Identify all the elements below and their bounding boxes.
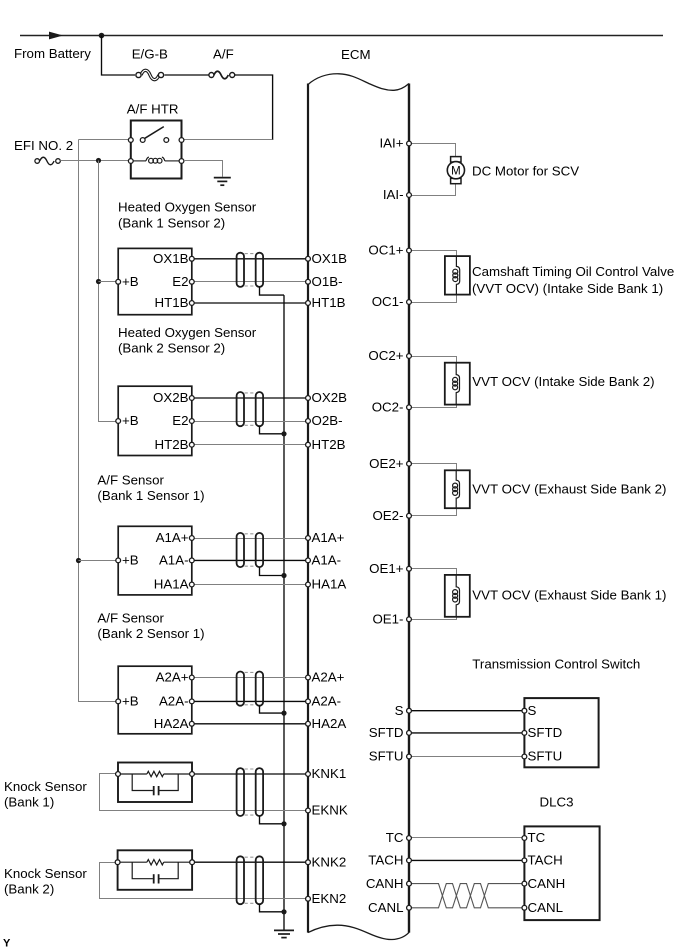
shield knock2 cable [237,856,264,904]
svg-text:A/F: A/F [213,47,234,62]
wire shield knock2 drain [260,904,285,912]
svg-text:OC2+: OC2+ [368,348,403,363]
svg-text:E2: E2 [172,413,188,428]
wire A2A- [192,700,308,702]
wire OC1+ to OCV1 [409,251,457,257]
ECM left pin HA1A [306,577,347,592]
knock2 pins [115,860,194,865]
wire KNK2 [192,861,308,863]
svg-text:(Bank 2): (Bank 2) [4,882,54,897]
wire HT1B [192,302,308,304]
sensor3 pins [116,536,194,587]
wire OC1- to OCV1 [409,295,457,303]
ECM left pin A2A- [306,694,341,709]
wire shield ground bus [283,295,285,930]
svg-text:TC: TC [528,830,546,845]
svg-text:A/F Sensor: A/F Sensor [97,473,164,488]
svg-text:OE1-: OE1- [372,612,403,627]
svg-text:OC1+: OC1+ [368,243,403,258]
node junction shield4 bus [281,711,286,716]
ECM left pin A2A+ [306,670,345,685]
wire relay coil to ground [184,161,223,177]
wire SFTU [409,756,524,758]
wire OE1+ to OCV4 [409,569,457,575]
wire A1A- [192,559,308,561]
wire CANH straight segments [409,884,437,908]
wire OC2+ to OCV2 [409,357,457,363]
ECM left pin KNK1 [306,766,347,781]
sensor2 pins [116,396,194,448]
svg-text:S: S [395,703,404,718]
svg-text:Y: Y [3,938,11,950]
ECM right pin S [395,703,412,718]
ECM right pin OC1+ [368,243,411,258]
svg-text:(VVT OCV) (Intake Side Bank 1): (VVT OCV) (Intake Side Bank 1) [472,281,663,296]
ECM right pin OC2+ [368,348,411,363]
fuse E/G-B fusible link [136,70,164,79]
wire relay switch output [182,139,273,141]
ECM right pin OC2- [372,400,412,415]
switch box transmission control switch [522,698,599,767]
wire EKN2 loop [100,863,309,899]
wire OE2- to OCV3 [409,508,457,515]
svg-text:CANL: CANL [528,900,563,915]
svg-text:HT1B: HT1B [312,295,346,310]
wire OX2B [192,397,308,399]
knock sensor 2 box [118,850,193,890]
svg-text:Transmission Control Switch: Transmission Control Switch [472,657,640,672]
svg-text:SFTD: SFTD [369,725,404,740]
wire OE2+ to OCV3 [409,464,457,471]
svg-text:A/F Sensor: A/F Sensor [97,610,164,625]
svg-text:(Bank 1 Sensor 1): (Bank 1 Sensor 1) [97,488,204,503]
svg-text:SFTU: SFTU [528,749,563,764]
svg-text:A2A-: A2A- [312,694,342,709]
svg-text:A1A+: A1A+ [312,530,345,545]
svg-text:EFI NO. 2: EFI NO. 2 [14,138,73,153]
motor M1 DC Motor for SCV [447,157,464,184]
sensor AF bank1 box [118,526,192,595]
ECM left pin A1A- [306,553,341,568]
shield sensor1 cable [237,253,264,287]
svg-text:A1A-: A1A- [159,553,189,568]
ground relay coil [214,178,231,186]
wire S [409,710,524,712]
node junction EFI wire rail B [96,158,101,163]
ECM left pin HT2B [306,437,346,452]
wire A/F fuse to relay switch [235,75,273,140]
svg-text:CANL: CANL [368,900,403,915]
svg-text:KNK1: KNK1 [312,766,347,781]
svg-text:OX1B: OX1B [312,251,348,266]
wire E/G-B to A/F fuse [164,74,209,76]
wire shield3 drain [260,567,285,575]
solenoid OCV3 VVT OCV exhaust bank 2 [445,470,470,508]
svg-text:TACH: TACH [528,853,563,868]
ECM right pin TACH [368,853,411,868]
svg-text:(Bank 2 Sensor 1): (Bank 2 Sensor 1) [97,626,204,641]
svg-text:SFTU: SFTU [369,749,404,764]
sensor AF bank2 box [118,666,192,734]
ECM right edge [408,84,410,933]
svg-text:A/F HTR: A/F HTR [127,102,179,117]
svg-text:TACH: TACH [368,853,403,868]
shield sensor3 cable [237,533,264,567]
svg-text:SFTD: SFTD [528,725,563,740]
ECM right pin OE1+ [369,561,411,576]
ECM right pin TC [386,830,412,845]
ECM top wavy edge [308,74,409,91]
svg-text:DLC3: DLC3 [540,795,574,810]
ECM left pin KNK2 [306,854,347,869]
svg-text:E2: E2 [172,274,188,289]
wire TACH [409,859,524,861]
svg-text:OE1+: OE1+ [369,561,404,576]
connector box DLC3 [522,826,600,920]
wire HT2B [192,444,308,446]
wire battery feed top line [20,35,663,37]
node junction shield2 bus [281,431,286,436]
svg-text:Heated Oxygen Sensor: Heated Oxygen Sensor [118,325,257,340]
svg-text:TC: TC [386,830,404,845]
svg-text:HT2B: HT2B [312,437,346,452]
wire CAN twisted pair [437,884,524,908]
wire EKNK loop [100,774,309,811]
svg-text:+B: +B [122,694,139,709]
wire HA2A [192,723,308,725]
svg-text:HT1B: HT1B [155,295,189,310]
svg-text:O1B-: O1B- [312,274,343,289]
wire rail A to sensor3 +B [79,560,119,562]
svg-text:CANH: CANH [366,876,404,891]
svg-text:Camshaft Timing Oil Control Va: Camshaft Timing Oil Control Valve [472,264,674,279]
svg-text:OC2-: OC2- [372,400,404,415]
wire IAI- to motor [409,184,456,196]
ECM left pin HT1B [306,295,346,310]
solenoid OCV1 camshaft timing oil control valve [445,256,470,295]
svg-text:(Bank 1): (Bank 1) [4,795,54,810]
sensor1 pins [116,256,194,305]
svg-text:HA2A: HA2A [312,716,347,731]
svg-text:IAI-: IAI- [383,187,404,202]
svg-text:HA1A: HA1A [312,577,347,592]
svg-text:A2A+: A2A+ [312,670,345,685]
ECM right pin OE1- [372,612,411,627]
svg-text:HA1A: HA1A [154,577,189,592]
ECM bottom wavy edge [308,925,409,939]
svg-text:OE2+: OE2+ [369,456,404,471]
svg-text:VVT OCV (Intake Side Bank 2): VVT OCV (Intake Side Bank 2) [472,374,654,389]
wire shield1 drain [260,287,285,295]
svg-text:A2A-: A2A- [159,694,189,709]
svg-text:VVT OCV (Exhaust Side Bank 1): VVT OCV (Exhaust Side Bank 1) [472,588,666,603]
ECM left edge [307,84,309,933]
svg-text:KNK2: KNK2 [312,854,347,869]
wire OC2- to OCV2 [409,405,457,408]
wire relay switch to rail A [79,139,131,141]
wire OX1B [192,258,308,260]
node junction rail A sensor3 +B [76,558,81,563]
fuse A/F [209,71,235,79]
ECM right pin OC1- [372,294,412,309]
wire A2A+ [192,677,308,679]
svg-text:+B: +B [122,553,139,568]
svg-text:IAI+: IAI+ [379,136,403,151]
wire shield4 drain [260,706,285,713]
wire rail B vertical [99,161,119,422]
sensor HOS bank2 box [118,386,192,455]
ECM left pin O2B- [306,413,343,428]
shield knock1 cable [237,768,264,816]
ECM right pin OE2+ [369,456,411,471]
wire IAI+ to motor [409,144,456,157]
svg-text:OE2-: OE2- [372,508,403,523]
svg-text:Knock Sensor: Knock Sensor [4,779,87,794]
arrow on battery line [49,32,63,40]
svg-text:O2B-: O2B- [312,413,343,428]
wire E2 sensor1 [192,281,308,283]
sensor HOS bank1 box [118,248,192,314]
ECM right pin IAI+ [379,136,411,151]
ECM left pin EKN2 [306,891,347,906]
ECM right pin SFTD [369,725,412,740]
ECM left pin HA2A [306,716,347,731]
node junction shield3 bus [281,573,286,578]
svg-text:From Battery: From Battery [14,46,91,61]
ECM right pin CANL [368,900,411,915]
wire shield2 drain [260,426,285,434]
ECM left pin OX2B [306,390,348,405]
wire TC [409,837,524,839]
ECM right pin CANH [366,876,412,891]
node junction rail B sensor1 +B [96,279,101,284]
svg-text:+B: +B [122,413,139,428]
svg-text:M: M [451,165,461,177]
svg-text:CANH: CANH [528,876,566,891]
svg-text:Knock Sensor: Knock Sensor [4,866,87,881]
svg-text:+B: +B [122,274,139,289]
svg-text:OX1B: OX1B [153,251,189,266]
svg-text:OX2B: OX2B [153,390,189,405]
svg-text:OC1-: OC1- [372,294,404,309]
fuse EFI NO. 2 [35,157,60,165]
wire OE1- to OCV4 [409,617,457,620]
node junction knock1 drain bus [281,821,286,826]
ECM right pin SFTU [369,749,412,764]
svg-text:HA2A: HA2A [154,716,189,731]
knock sensor 1 box [118,763,192,803]
shield sensor2 cable [237,392,264,426]
svg-text:A2A+: A2A+ [156,670,189,685]
svg-text:(Bank 1 Sensor 2): (Bank 1 Sensor 2) [118,215,225,230]
relay A/F HTR [127,102,184,179]
wire rail B to sensor1 +B [99,281,119,283]
svg-text:A1A+: A1A+ [156,530,189,545]
ECM left pin O1B- [306,274,343,289]
ECM right pin OE2- [372,508,411,523]
knock1 pins [116,772,195,777]
wire shield knock1 drain [260,816,285,824]
svg-text:(Bank 2 Sensor 2): (Bank 2 Sensor 2) [118,341,225,356]
wire EFI fuse to relay coil [60,160,131,162]
ECM right pin IAI- [383,187,412,202]
wire SFTD [409,732,524,734]
svg-text:Heated Oxygen Sensor: Heated Oxygen Sensor [118,200,257,215]
wire KNK1 [192,773,308,775]
svg-text:E/G-B: E/G-B [132,47,168,62]
solenoid OCV4 VVT OCV exhaust bank 1 [445,575,470,617]
svg-text:EKN2: EKN2 [312,891,347,906]
svg-text:HT2B: HT2B [155,437,189,452]
wire battery to E/G-B fuse [102,36,136,76]
sensor4 pins [116,675,194,726]
node junction knock2 drain bus [281,909,286,914]
svg-text:DC Motor for SCV: DC Motor for SCV [472,163,579,178]
ECM left pin OX1B [306,251,348,266]
svg-text:EKNK: EKNK [312,803,348,818]
wire rail A vertical [79,140,119,702]
svg-text:VVT OCV (Exhaust Side Bank 2): VVT OCV (Exhaust Side Bank 2) [472,482,666,497]
ECM left pin A1A+ [306,530,345,545]
node junction battery line [99,33,105,39]
solenoid OCV2 VVT OCV intake bank 2 [445,363,470,405]
ground shield bus [274,930,294,937]
ECM left pin EKNK [306,803,348,818]
wire HA1A [192,584,308,586]
wire A1A+ [192,538,308,540]
svg-text:A1A-: A1A- [312,553,342,568]
shield sensor4 cable [237,672,264,706]
svg-text:ECM: ECM [341,47,371,62]
wire E2 sensor2 [192,421,308,423]
svg-text:OX2B: OX2B [312,390,348,405]
svg-text:S: S [528,703,537,718]
